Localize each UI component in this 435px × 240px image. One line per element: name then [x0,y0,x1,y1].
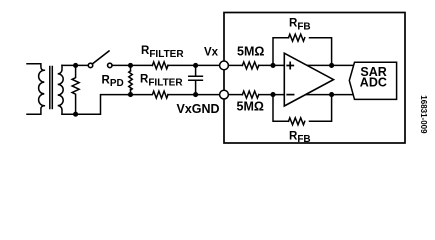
node: RPD top [128,63,133,68]
feedback RFB (bottom) wire down [273,95,289,122]
resistor RFILTER (bottom) [128,91,168,98]
svg-text:Vx: Vx [204,47,219,59]
feedback RFB (top) wire down to top rail [310,38,332,66]
svg-text:RFILTER: RFILTER [140,74,183,89]
svg-text:ADC: ADC [360,76,387,90]
op-amp plus input mark [287,62,293,68]
node: RFB bottom to rail junction [329,92,334,97]
svg-text:5MΩ: 5MΩ [237,99,264,113]
svg-text:5MΩ: 5MΩ [237,45,264,59]
node: VxGND junction [193,92,198,97]
capacitor C1 [189,65,203,94]
resistor RFB (bottom) [289,118,305,125]
wire: 5M top rail to SAR ADC [259,64,354,66]
resistor RFILTER (top) [152,62,168,69]
svg-text:VxGND: VxGND [177,102,220,116]
node: shunt resistor top junction [73,63,78,68]
resistor (shunt across secondary) [72,65,79,114]
node: top feedback tap [270,63,275,68]
transformer core line 1 [49,67,51,109]
transformer T1 primary top lead [27,64,44,71]
transformer T1 primary winding [39,70,45,105]
svg-text:RFILTER: RFILTER [141,45,184,60]
transformer T1 secondary winding [58,65,64,114]
node: RFB top to rail junction [329,63,334,68]
ADC driver box [224,13,405,144]
feedback RFB (top) wire up [273,38,289,66]
node: RPD bottom [128,92,133,97]
op-amp U1 [284,53,333,106]
wire: top RFILTER to Vx node [168,64,220,66]
wire: 5M bottom rail to SAR ADC [259,94,354,96]
terminal Vx (port circle) [220,61,229,70]
transformer T1 primary bottom lead [27,106,44,115]
node: Vx junction [193,63,198,68]
wire: Vx terminal to 5M resistor [228,64,242,66]
transformer core line 2 [51,67,53,109]
wire: VxGND terminal to 5M resistor [228,94,242,96]
node: shunt resistor bottom junction [73,112,78,117]
wire: switch to RPD node [112,64,152,66]
svg-text:RPD: RPD [102,74,124,89]
feedback RFB (bottom) wire up to bottom rail [310,95,332,122]
wire: transformer bottom rail [62,95,128,115]
resistor RPD [129,71,133,90]
SAR ADC block [349,62,396,99]
resistor 5M (top) [242,62,258,69]
switch S1 [88,63,93,68]
node: bottom feedback tap [270,92,275,97]
wire: secondary top to switch [62,64,88,66]
resistor RFB (top) [289,34,305,41]
wire: bottom RFILTER to VxGND node [168,94,220,96]
svg-text:16831-009: 16831-009 [419,95,428,134]
terminal VxGND (port circle) [220,90,229,99]
svg-text:RFB: RFB [289,18,311,33]
op-amp minus input mark [287,94,293,96]
resistor 5M (bottom) [242,91,258,98]
